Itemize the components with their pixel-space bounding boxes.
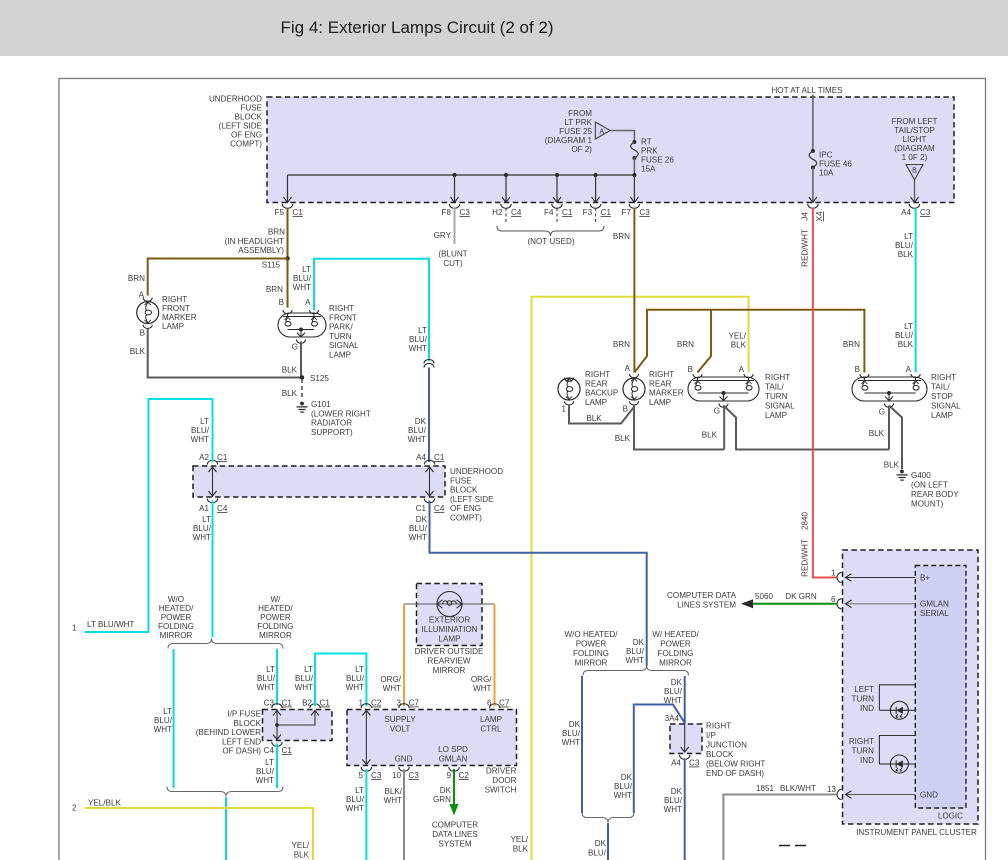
svg-text:BLU/: BLU/: [562, 729, 581, 738]
svg-text:C4: C4: [217, 504, 228, 513]
svg-text:YEL/BLK: YEL/BLK: [88, 799, 121, 808]
bus junction dot H2: [504, 173, 508, 177]
label LT BLU/WHT wo branch: [154, 707, 173, 734]
svg-text:C4: C4: [434, 504, 445, 513]
label BRN F5: [268, 228, 285, 237]
svg-text:A: A: [625, 364, 631, 373]
label 1851: [756, 784, 775, 793]
label BRN rear marker: [613, 340, 630, 349]
svg-text:BLU/: BLU/: [409, 335, 428, 344]
svg-text:WHT: WHT: [562, 738, 580, 747]
bus junction dot F8: [452, 173, 456, 177]
label LT BLU/BLK upper: [895, 232, 914, 259]
label ORG/WHT left: [380, 675, 401, 693]
svg-text:RIGHT: RIGHT: [765, 373, 790, 382]
inline connector at 429: [424, 359, 434, 367]
U5 pin 3 C7: [396, 699, 419, 709]
U5 internal arrow: [362, 710, 370, 766]
svg-text:VOLT: VOLT: [390, 725, 411, 734]
svg-text:LINES SYSTEM: LINES SYSTEM: [677, 601, 736, 610]
svg-text:(LOWER RIGHT: (LOWER RIGHT: [311, 409, 371, 418]
svg-text:10: 10: [392, 771, 402, 780]
svg-text:FOLDING: FOLDING: [257, 622, 293, 631]
label G400: [911, 471, 959, 509]
wire GRY blunt cut: [434, 208, 468, 268]
label RIGHT I/P JUNCTION BLOCK: [706, 722, 765, 779]
svg-text:W/: W/: [270, 595, 281, 604]
svg-text:PRK: PRK: [641, 147, 658, 156]
svg-text:IND: IND: [860, 756, 874, 765]
svg-text:DK: DK: [415, 417, 427, 426]
svg-text:ASSEMBLY): ASSEMBLY): [238, 246, 284, 255]
wire DK GRN below pin9: [450, 769, 459, 816]
lamp E4 right rear marker: [623, 378, 645, 400]
svg-text:I/P FUSE: I/P FUSE: [227, 710, 261, 719]
svg-text:BLU/: BLU/: [588, 849, 607, 858]
svg-text:PARK/: PARK/: [329, 323, 353, 332]
U2 pin A1 C4: [199, 499, 228, 514]
svg-text:B: B: [279, 298, 284, 307]
bus junction dot F7: [632, 173, 636, 177]
svg-text:SIGNAL: SIGNAL: [765, 402, 795, 411]
svg-text:6: 6: [831, 595, 836, 604]
label G101: [311, 400, 371, 437]
led left turn indicator: [890, 701, 908, 719]
svg-text:BLK/: BLK/: [384, 787, 402, 796]
svg-text:REAR: REAR: [649, 379, 672, 388]
wire W branch cyan: [276, 649, 278, 705]
wire LT BLU/WHT below pin5: [365, 769, 367, 860]
svg-text:C3: C3: [264, 699, 275, 708]
wire BLK park G to S125: [300, 342, 302, 378]
svg-text:OF 2): OF 2): [571, 145, 592, 154]
U3 internal arrows: [273, 710, 319, 741]
wire cyan below U3: [276, 744, 278, 789]
svg-text:C4: C4: [264, 746, 275, 755]
label BLK G400: [884, 461, 900, 470]
lamp E2 G label: [292, 343, 298, 352]
U2 pin A4 C1: [416, 453, 445, 465]
svg-text:WHT: WHT: [408, 435, 426, 444]
svg-text:BLU/: BLU/: [664, 687, 683, 696]
label LT BLU/WHT B2 wire: [295, 665, 314, 692]
svg-text:ORG/: ORG/: [380, 675, 401, 684]
svg-text:G: G: [714, 407, 720, 416]
svg-text:RIGHT: RIGHT: [649, 370, 674, 379]
svg-text:B2: B2: [302, 699, 312, 708]
svg-text:BLU/: BLU/: [895, 241, 914, 250]
wire W branch navy: [684, 676, 686, 724]
svg-text:GRN: GRN: [433, 795, 451, 804]
svg-text:WHT: WHT: [409, 344, 427, 353]
svg-text:YEL/: YEL/: [728, 332, 746, 341]
logic box: [915, 566, 966, 809]
svg-text:LAMP: LAMP: [162, 322, 184, 331]
svg-text:BLK: BLK: [884, 461, 900, 470]
svg-text:IND: IND: [860, 704, 874, 713]
svg-text:GRY: GRY: [434, 231, 452, 240]
label LEFT TURN IND: [852, 685, 875, 713]
svg-text:SYSTEM: SYSTEM: [438, 840, 472, 849]
wire navy bypass: [634, 705, 685, 814]
svg-text:LAMP: LAMP: [649, 398, 671, 407]
svg-text:Fig 4: Exterior Lamps Circuit: Fig 4: Exterior Lamps Circuit (2 of 2): [280, 18, 553, 37]
svg-text:FUSE: FUSE: [240, 104, 262, 113]
svg-text:RADIATOR: RADIATOR: [311, 419, 352, 428]
svg-text:MARKER: MARKER: [649, 389, 684, 398]
splice S125: [300, 374, 330, 383]
svg-text:C3: C3: [639, 208, 650, 217]
wire BLK rear marker B down: [634, 405, 724, 450]
svg-text:BRN: BRN: [613, 340, 630, 349]
brace NOT USED: [497, 226, 604, 246]
label BRN tail/turn: [677, 340, 694, 349]
svg-text:F5: F5: [275, 208, 285, 217]
svg-text:LEFT END: LEFT END: [222, 737, 261, 746]
svg-text:5: 5: [358, 771, 363, 780]
label 5060: [755, 592, 774, 601]
wire LT BLU/BLK: [915, 208, 917, 373]
label 2840 rotated: [801, 512, 810, 531]
svg-text:BLU/: BLU/: [191, 426, 210, 435]
label DK BLU merged: [588, 839, 607, 858]
wire triangle A to fuse 26: [610, 131, 634, 143]
label W/O HEATED mirror 2: [565, 630, 619, 668]
lamp E3 pin 1 label: [561, 405, 566, 414]
svg-text:C1: C1: [562, 208, 573, 217]
label HOT AT ALL TIMES: [771, 86, 843, 95]
svg-text:HEATED/: HEATED/: [159, 604, 194, 613]
lamp E1 top connector arc: [143, 298, 152, 302]
svg-text:LIGHT: LIGHT: [903, 135, 927, 144]
svg-text:MIRROR: MIRROR: [575, 659, 608, 668]
label INSTRUMENT PANEL CLUSTER: [856, 828, 977, 837]
wire GND line: [846, 791, 916, 799]
lamp E5 G arc: [719, 404, 728, 408]
title bar: [0, 0, 1008, 56]
svg-text:FOLDING: FOLDING: [158, 622, 194, 631]
svg-text:IPC: IPC: [819, 151, 833, 160]
label DK BLU/WHT wo branch 2: [562, 720, 581, 747]
svg-text:F4: F4: [544, 208, 554, 217]
U5 pin 10 C3: [392, 767, 419, 780]
svg-text:LT: LT: [200, 417, 209, 426]
label BRN F7: [613, 232, 630, 241]
svg-text:OF ENG: OF ENG: [231, 131, 262, 140]
svg-text:WHT: WHT: [664, 805, 682, 814]
cluster pin 6: [831, 595, 842, 609]
label COMPUTER DATA LINES SYSTEM left: [667, 591, 737, 610]
fuse F26 RT PRK: [631, 140, 639, 160]
label RIGHT FRONT PARK/TURN SIGNAL LAMP: [329, 304, 359, 360]
svg-text:RIGHT: RIGHT: [849, 737, 874, 746]
lamp E4 bottom arc: [629, 401, 638, 405]
svg-text:LO SPD: LO SPD: [438, 745, 468, 754]
right turn ind bracket: [879, 736, 915, 765]
svg-text:A: A: [906, 365, 912, 374]
lamp E2 labels B A: [279, 298, 312, 307]
label 3A4: [665, 714, 680, 723]
lamp E2 pin A arc: [309, 310, 318, 314]
svg-text:TAIL/: TAIL/: [765, 383, 784, 392]
svg-text:S125: S125: [310, 374, 329, 383]
underhood fuse block U1: [267, 97, 954, 203]
svg-text:BLU/: BLU/: [154, 716, 173, 725]
svg-text:TURN: TURN: [329, 332, 352, 341]
pin F4 C1: [544, 175, 573, 217]
label W/ HEATED mirror 2: [652, 630, 699, 668]
svg-text:FROM: FROM: [568, 109, 592, 118]
svg-text:BLK: BLK: [898, 340, 914, 349]
svg-text:W/O HEATED/: W/O HEATED/: [565, 630, 619, 639]
label BLK/WHT below pin10: [384, 787, 403, 805]
lamp E7 exterior illumination: [404, 592, 495, 617]
underhood fuse block U2: [193, 466, 445, 497]
label DK GRN: [433, 786, 452, 804]
svg-text:5060: 5060: [755, 592, 774, 601]
wire fuse 26 to bus: [633, 158, 635, 175]
label BLK tail/stop: [869, 429, 885, 438]
svg-text:LT: LT: [904, 232, 913, 241]
label BLK rear marker: [615, 434, 631, 443]
svg-text:GND: GND: [920, 791, 938, 800]
svg-text:JUNCTION: JUNCTION: [706, 741, 747, 750]
svg-text:LEFT: LEFT: [854, 685, 874, 694]
svg-text:GMLAN: GMLAN: [920, 600, 949, 609]
svg-text:BLOCK: BLOCK: [450, 486, 478, 495]
svg-text:TAIL/STOP: TAIL/STOP: [894, 126, 935, 135]
svg-text:G101: G101: [311, 400, 331, 409]
svg-text:F7: F7: [621, 208, 631, 217]
svg-text:FOLDING: FOLDING: [573, 649, 609, 658]
svg-text:WHT: WHT: [383, 684, 401, 693]
svg-text:W/ HEATED/: W/ HEATED/: [652, 630, 699, 639]
svg-text:2840: 2840: [801, 512, 810, 531]
svg-text:A: A: [739, 365, 745, 374]
svg-text:FUSE 26: FUSE 26: [641, 156, 674, 165]
svg-text:COMPUTER DATA: COMPUTER DATA: [667, 591, 737, 600]
wire BRN branch tail/turn B: [698, 310, 712, 373]
lamp E6 G label: [879, 408, 885, 417]
label BLK/WHT 1851: [780, 784, 816, 793]
svg-text:SERIAL: SERIAL: [920, 609, 949, 618]
svg-text:BLK: BLK: [586, 414, 602, 423]
svg-text:WHT: WHT: [346, 683, 364, 692]
pin J4 X4: [801, 197, 825, 221]
svg-text:COMPT): COMPT): [230, 140, 262, 149]
svg-text:C2: C2: [371, 699, 382, 708]
svg-text:SIGNAL: SIGNAL: [329, 341, 359, 350]
svg-text:BRN: BRN: [128, 274, 145, 283]
svg-text:MOUNT): MOUNT): [911, 500, 944, 509]
svg-text:BLU/: BLU/: [346, 795, 365, 804]
label wire 1: [72, 620, 134, 633]
svg-text:REARVIEW: REARVIEW: [427, 657, 470, 666]
svg-text:SWITCH: SWITCH: [485, 786, 517, 795]
splice S115: [262, 256, 290, 269]
label GND: [395, 755, 413, 764]
svg-text:CUT): CUT): [443, 259, 463, 268]
svg-text:RIGHT: RIGHT: [706, 722, 731, 731]
ground G101: [297, 402, 308, 413]
svg-text:ORG/: ORG/: [471, 675, 492, 684]
svg-text:(LEFT SIDE: (LEFT SIDE: [219, 122, 263, 131]
label DK BLU/WHT bypass: [614, 773, 633, 800]
svg-text:MIRROR: MIRROR: [259, 631, 292, 640]
svg-text:SUPPORT): SUPPORT): [311, 428, 353, 437]
svg-text:RIGHT: RIGHT: [585, 370, 610, 379]
svg-text:BRN: BRN: [613, 232, 630, 241]
label I/P FUSE BLOCK: [196, 710, 262, 756]
svg-text:1: 1: [561, 405, 566, 414]
svg-text:(ON LEFT: (ON LEFT: [911, 481, 948, 490]
svg-text:WHT: WHT: [293, 283, 311, 292]
svg-text:3A4: 3A4: [665, 714, 680, 723]
label LT BLU/WHT below U2: [193, 515, 212, 542]
wire cyan B2 to module pin1: [315, 654, 366, 707]
svg-text:BLU/: BLU/: [664, 796, 683, 805]
svg-text:FROM LEFT: FROM LEFT: [892, 117, 938, 126]
pin H2 C4: [492, 175, 522, 217]
svg-text:DK GRN: DK GRN: [785, 592, 817, 601]
svg-text:POWER: POWER: [260, 613, 291, 622]
svg-text:LAMP: LAMP: [480, 715, 502, 724]
svg-text:BLU/: BLU/: [409, 524, 428, 533]
svg-text:C1: C1: [434, 453, 445, 462]
brace mirror split upper: [168, 639, 283, 649]
lamp E1 bottom connector arc: [143, 325, 152, 329]
svg-text:BLU/: BLU/: [895, 331, 914, 340]
instrument panel cluster box: [843, 550, 979, 824]
svg-text:POWER: POWER: [576, 640, 607, 649]
svg-text:DK: DK: [621, 773, 633, 782]
brace mirror merge 2: [582, 813, 634, 823]
lamp E6 pin A arc: [911, 374, 920, 378]
lamp E2 G pin arc: [296, 340, 305, 344]
svg-text:RT: RT: [641, 138, 652, 147]
svg-text:LT: LT: [266, 665, 275, 674]
svg-text:RIGHT: RIGHT: [162, 295, 187, 304]
label FROM LT PRK FUSE 25: [545, 109, 593, 154]
svg-text:WHT: WHT: [614, 791, 632, 800]
svg-text:F3: F3: [583, 208, 593, 217]
ip fuse block U3: [263, 710, 333, 741]
wire BRN S115 to marker lamp A: [148, 259, 288, 296]
svg-text:UNDERHOOD: UNDERHOOD: [450, 467, 503, 476]
off-page connector triangle A: [595, 122, 610, 139]
wire IPC fuse to pin J4: [812, 168, 814, 203]
svg-text:A2: A2: [199, 453, 209, 462]
svg-text:SUPPLY: SUPPLY: [384, 715, 416, 724]
svg-text:BACKUP: BACKUP: [585, 389, 618, 398]
svg-text:2: 2: [72, 804, 77, 813]
svg-text:STOP: STOP: [931, 392, 953, 401]
svg-text:BLK: BLK: [731, 341, 747, 350]
lamp E4 pin B label: [623, 405, 628, 414]
svg-text:BLU/: BLU/: [346, 674, 365, 683]
lamp E2 inner: [283, 313, 321, 337]
svg-text:C3: C3: [689, 759, 700, 768]
svg-text:LT BLU/WHT: LT BLU/WHT: [87, 620, 134, 629]
label GND cluster: [920, 791, 938, 800]
svg-text:B: B: [140, 329, 145, 338]
svg-text:WHT: WHT: [191, 435, 209, 444]
label RIGHT REAR MARKER LAMP: [649, 370, 684, 407]
lamp E4 pin A label: [625, 364, 631, 373]
label LT BLU/WHT park A: [293, 265, 312, 292]
U4 pin A4 C3: [671, 755, 700, 768]
off-page connector triangle B: [906, 165, 923, 181]
svg-text:INSTRUMENT PANEL CLUSTER: INSTRUMENT PANEL CLUSTER: [856, 828, 977, 837]
lamp E5 labels B A: [688, 365, 745, 374]
svg-text:WHT: WHT: [409, 533, 427, 542]
cluster pin 1: [831, 569, 842, 583]
wire BRN F5 to S115: [287, 208, 289, 259]
svg-text:LAMP: LAMP: [329, 351, 351, 360]
label B+: [920, 574, 930, 583]
label ORG/WHT right: [471, 675, 492, 693]
partial box below: [779, 845, 806, 847]
svg-text:EXTERIOR: EXTERIOR: [429, 616, 471, 625]
wire YEL/BLK riser: [532, 297, 749, 860]
underhood fuse block label: [209, 95, 263, 149]
lamp E5 pin B arc: [693, 374, 702, 378]
svg-text:LAMP: LAMP: [931, 411, 953, 420]
wire navy below U4: [684, 759, 686, 860]
svg-text:BLU/: BLU/: [408, 426, 427, 435]
wire 1 LT BLU/WHT: [85, 399, 213, 632]
label LAMP CTRL: [480, 715, 502, 734]
svg-text:BLK: BLK: [615, 434, 631, 443]
lamp E6 right tail/stop body: [852, 377, 927, 401]
label LT BLU/BLK lower: [895, 322, 914, 349]
svg-text:MIRROR: MIRROR: [160, 631, 193, 640]
svg-text:C7: C7: [409, 699, 420, 708]
svg-text:(DIAGRAM: (DIAGRAM: [894, 144, 935, 153]
svg-text:C1: C1: [282, 746, 293, 755]
svg-text:REAR: REAR: [585, 379, 608, 388]
svg-text:LOGIC: LOGIC: [938, 812, 963, 821]
svg-text:1: 1: [831, 569, 836, 578]
led right turn indicator: [890, 755, 908, 773]
cluster pin 13: [827, 785, 842, 800]
svg-text:C7: C7: [499, 699, 510, 708]
svg-text:BLOCK: BLOCK: [234, 719, 262, 728]
svg-text:DK: DK: [416, 515, 428, 524]
U5 pin 5 C3: [358, 767, 381, 780]
svg-text:TURN: TURN: [765, 392, 788, 401]
stub F4 not used: [556, 208, 558, 223]
svg-text:TURN: TURN: [852, 695, 875, 704]
svg-text:WHT: WHT: [257, 683, 275, 692]
wire LT BLU/WHT park A: [314, 259, 429, 361]
svg-text:RIGHT: RIGHT: [329, 304, 354, 313]
wire BLK tail/stop G down: [888, 406, 890, 450]
svg-text:LT: LT: [304, 665, 313, 674]
svg-text:F8: F8: [442, 208, 452, 217]
svg-text:DK: DK: [671, 678, 683, 687]
lamp E5 G label: [714, 407, 720, 416]
svg-text:UNDERHOOD: UNDERHOOD: [209, 95, 262, 104]
label LT BLU/WHT col1: [191, 417, 210, 444]
wire BLK backup to marker B: [569, 405, 634, 424]
svg-text:BLU/: BLU/: [293, 274, 312, 283]
label LT BLU/WHT below pin5: [346, 786, 365, 813]
svg-text:WHT: WHT: [384, 796, 402, 805]
label BLK marker: [130, 347, 146, 356]
svg-text:FRONT: FRONT: [329, 313, 357, 322]
exterior illumination lamp box: [417, 584, 483, 646]
